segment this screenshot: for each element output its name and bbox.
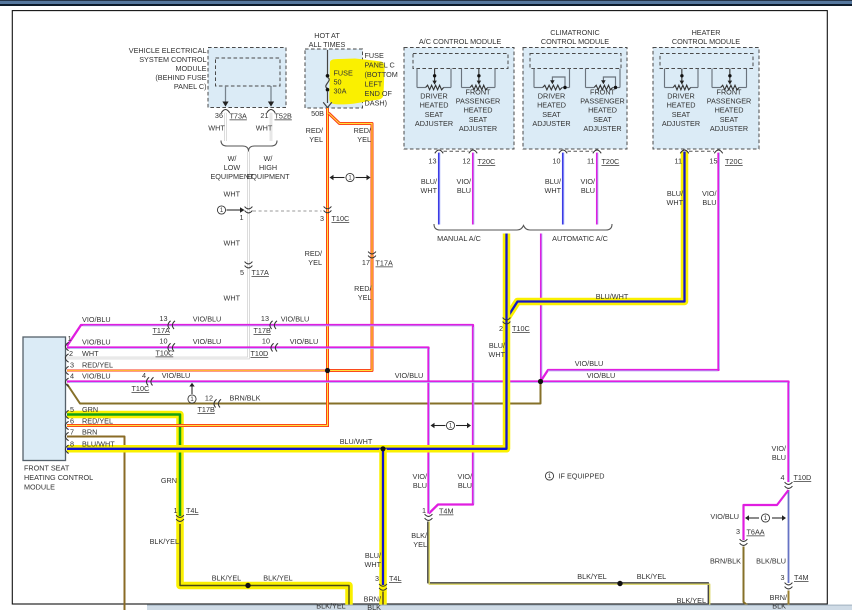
connector T20C pins 10,11 arcs (climatronic) (559, 150, 601, 153)
node VIO/BLU junction dot (538, 379, 543, 384)
if-equipped up arrow on row D (188, 383, 196, 404)
svg-text:DRIVER: DRIVER (538, 92, 565, 101)
wire BLK/YEL highlighted below T4L-1 (180, 516, 349, 610)
connector T4L pin 1 arcs (176, 515, 184, 517)
wire RED/YEL pin 3 row (67, 370, 328, 372)
svg-text:3: 3 (736, 527, 740, 536)
wire RED/YEL right branch via T17A-17 (329, 113, 373, 371)
resistor front passenger heated seat adjuster (heater) (712, 69, 747, 90)
wire BRN/BLK below T4M-3 (788, 591, 790, 609)
label BLU/WHT + VIO/BLU (climatronic) (544, 177, 595, 195)
brace manual/automatic A/C merge (434, 224, 612, 230)
svg-text:ADJUSTER: ADJUSTER (459, 124, 497, 133)
svg-text:FRONT: FRONT (590, 87, 616, 96)
svg-text:BLU/WHT: BLU/WHT (340, 437, 373, 446)
connector T17B pin 12 arcs (214, 399, 217, 407)
wire VIO/BLU below brace to junction (540, 234, 543, 382)
label connector T4L pin 3 (375, 574, 402, 583)
label front seat module pin wire names (82, 338, 115, 449)
svg-text:T73A: T73A (230, 112, 247, 121)
svg-text:BLU: BLU (413, 481, 427, 490)
label front seat module pin numbers (68, 334, 74, 449)
connector T73A pin 36 arc (221, 110, 229, 113)
label RED/YEL right upper (354, 126, 372, 144)
wire WHT from T73A (224, 113, 226, 141)
svg-text:T17A: T17A (252, 268, 269, 277)
svg-text:T17A: T17A (376, 259, 393, 268)
fuse F50 symbol 50 30A (323, 50, 332, 108)
wire BRN/BLK pin4 branch via T17B-12 to junction (67, 383, 541, 404)
wire BRN pin7 down (67, 437, 125, 610)
label connector T17A pin 5 (240, 268, 269, 277)
svg-text:HEATED: HEATED (715, 106, 744, 115)
wire VESCM internal pin 21 lead (268, 86, 274, 107)
svg-text:T10D: T10D (251, 349, 269, 358)
module U5 front seat heating control module box (23, 337, 66, 461)
svg-text:BLK: BLK (367, 603, 381, 610)
svg-text:SEAT: SEAT (542, 110, 561, 119)
svg-text:8: 8 (70, 440, 74, 449)
svg-text:BLU: BLU (772, 453, 786, 462)
svg-text:CONTROL MODULE: CONTROL MODULE (672, 37, 740, 46)
svg-text:BRN: BRN (82, 428, 97, 437)
label BLU/WHT above T4L-3 (364, 551, 381, 569)
svg-text:T10C: T10C (512, 324, 530, 333)
svg-text:WHT: WHT (364, 560, 381, 569)
svg-text:T20C: T20C (478, 157, 496, 166)
svg-text:PASSENGER: PASSENGER (707, 97, 752, 106)
connector T20C pins 13,12 arcs (A/C) (435, 150, 477, 153)
if-equipped arrow between fuse branches (330, 173, 371, 181)
svg-text:PANEL C: PANEL C (365, 61, 395, 70)
svg-text:WHT: WHT (666, 198, 683, 207)
svg-text:VIO/BLU: VIO/BLU (710, 512, 739, 521)
label BLK/YEL bottom row labels (212, 574, 346, 610)
svg-text:3: 3 (320, 214, 324, 223)
svg-text:1: 1 (422, 506, 426, 515)
svg-text:RED/YEL: RED/YEL (82, 361, 113, 370)
module U1 vehicle electrical system control module box (208, 48, 286, 108)
connector T10C pin 3 arcs (324, 206, 332, 208)
svg-text:VIO/: VIO/ (412, 472, 427, 481)
if-equipped arrow between T4M feeds (431, 421, 472, 429)
svg-text:BLK/YEL: BLK/YEL (316, 601, 345, 610)
svg-text:1: 1 (173, 506, 177, 515)
svg-text:YEL: YEL (413, 540, 427, 549)
svg-text:ADJUSTER: ADJUSTER (662, 119, 700, 128)
label BLU/WHT + VIO/BLU (A/C) (420, 177, 471, 195)
svg-text:HEATED: HEATED (537, 101, 566, 110)
svg-text:PANEL C): PANEL C) (174, 82, 207, 91)
svg-text:FRONT: FRONT (466, 87, 492, 96)
label WHT wire x3 (223, 190, 240, 303)
module U2 A/C control module box (404, 48, 514, 150)
svg-text:LOW: LOW (224, 163, 241, 172)
svg-text:ALL TIMES: ALL TIMES (309, 40, 346, 49)
svg-text:SEAT: SEAT (425, 110, 444, 119)
wire VESCM internal pin 36 lead (222, 86, 228, 107)
svg-text:BLU/WHT: BLU/WHT (596, 292, 629, 301)
connector T52B pin 21 arc (267, 110, 275, 113)
label VIO/BLU above T4M-1 right (457, 472, 472, 490)
svg-text:3: 3 (780, 573, 784, 582)
label RED/YEL left upper (306, 126, 324, 144)
svg-text:HEATED: HEATED (420, 101, 449, 110)
svg-text:VIO/BLU: VIO/BLU (395, 371, 424, 380)
svg-text:W/: W/ (264, 154, 274, 163)
svg-text:WHT: WHT (544, 186, 561, 195)
svg-text:BLK/YEL: BLK/YEL (677, 596, 706, 605)
svg-text:GRN: GRN (161, 476, 177, 485)
svg-text:AUTOMATIC A/C: AUTOMATIC A/C (552, 234, 608, 243)
connector T10D pin 4 arcs (785, 482, 793, 484)
node RED/YEL junction (325, 368, 330, 373)
wire BLU/WHT highlighted trunk below brace to pin 8 row (67, 234, 507, 449)
module U3 climatronic control module box (523, 48, 627, 150)
svg-text:VIO/BLU: VIO/BLU (82, 372, 111, 381)
front seat module pin arcs 1-8 (65, 342, 68, 453)
node BLU/WHT junction at pin8 row (380, 446, 385, 451)
svg-text:T52B: T52B (275, 112, 292, 121)
svg-text:VIO/: VIO/ (771, 444, 786, 453)
svg-text:ADJUSTER: ADJUSTER (415, 119, 453, 128)
svg-text:T4M: T4M (439, 507, 454, 516)
svg-text:HOT AT: HOT AT (314, 31, 340, 40)
svg-text:10: 10 (262, 337, 270, 346)
svg-text:WHT: WHT (420, 186, 437, 195)
svg-text:VIO/: VIO/ (580, 177, 595, 186)
connector T4M pin 3 arcs (785, 583, 793, 585)
svg-text:VIO/BLU: VIO/BLU (290, 337, 319, 346)
svg-text:RED/: RED/ (306, 126, 324, 135)
svg-text:W/: W/ (228, 154, 238, 163)
svg-text:DASH): DASH) (365, 99, 388, 108)
bottom UI strip (147, 605, 852, 610)
svg-text:HEATED: HEATED (667, 101, 696, 110)
svg-text:HEATED: HEATED (464, 106, 493, 115)
svg-text:BLK/BLU: BLK/BLU (756, 557, 786, 566)
svg-text:MODULE: MODULE (175, 64, 206, 73)
label connector T52B pin 21 (260, 111, 292, 121)
svg-text:YEL: YEL (308, 258, 322, 267)
svg-text:HEATED: HEATED (588, 106, 617, 115)
svg-text:11: 11 (674, 157, 682, 166)
svg-text:13: 13 (428, 157, 436, 166)
svg-text:7: 7 (70, 428, 74, 437)
svg-text:DRIVER: DRIVER (420, 92, 447, 101)
svg-text:FRONT SEAT: FRONT SEAT (24, 464, 70, 473)
svg-text:RED/: RED/ (305, 249, 323, 258)
connector T10D pin 10 arcs (271, 343, 274, 351)
svg-text:12: 12 (205, 394, 213, 403)
connector T17A pin 17 arcs (368, 252, 376, 254)
label connector T6AA pin 3 (736, 527, 765, 537)
label heater control module title (672, 28, 740, 46)
resistor driver heated seat adjuster (A/C) (417, 69, 451, 90)
svg-text:BLU: BLU (702, 198, 716, 207)
label connector T17B pin 12 (198, 394, 215, 415)
label w/ low equipment (210, 154, 254, 181)
label connector T73A pin 36 (215, 111, 247, 121)
wire BLU/WHT from climatronic pin 10 (562, 153, 565, 225)
resistor front passenger heated seat adjuster (climatronic) (586, 69, 621, 90)
svg-text:CONTROL MODULE: CONTROL MODULE (541, 37, 609, 46)
svg-text:T10C: T10C (156, 349, 174, 358)
svg-text:6: 6 (70, 417, 74, 426)
svg-text:GRN: GRN (82, 405, 98, 414)
svg-text:5: 5 (70, 405, 74, 414)
label T20C pins 11,15 (heater) (674, 157, 742, 167)
label connector T4M pin 3 (780, 573, 808, 582)
label driver/passenger adjuster texts (heater) (662, 92, 700, 129)
svg-text:WHT: WHT (208, 124, 225, 133)
svg-text:BLK/: BLK/ (411, 531, 428, 540)
brace merge low/high equipment (221, 141, 277, 152)
label T20C pins 10,11 (climatronic) (552, 157, 619, 167)
svg-text:END OF: END OF (365, 89, 393, 98)
label connector T10D pin 4 (780, 473, 811, 482)
svg-text:MANUAL A/C: MANUAL A/C (437, 234, 481, 243)
svg-text:VIO/BLU: VIO/BLU (162, 371, 191, 380)
label driver/passenger adjuster texts (climatronic) (532, 92, 570, 129)
svg-text:PASSENGER: PASSENGER (580, 97, 625, 106)
svg-text:T10D: T10D (794, 473, 812, 482)
svg-text:(BOTTOM: (BOTTOM (365, 70, 398, 79)
wire VIO/BLU from A/C pin 12 (472, 153, 475, 225)
svg-text:WHT: WHT (82, 349, 99, 358)
svg-text:EQUIPMENT: EQUIPMENT (246, 172, 290, 181)
label connector T17A pin 17 (362, 258, 393, 268)
svg-text:BLU/: BLU/ (489, 341, 506, 350)
svg-text:BLU/: BLU/ (545, 177, 562, 186)
svg-text:T20C: T20C (725, 157, 743, 166)
label connector T10C pin 4 (132, 371, 150, 393)
wire VIO/BLU row B pin1 to T4M via T10C/T10D (67, 348, 429, 514)
svg-text:SEAT: SEAT (593, 115, 612, 124)
svg-text:5: 5 (240, 268, 244, 277)
svg-text:12: 12 (462, 157, 470, 166)
connector T10C pin 2 arcs (503, 318, 511, 320)
svg-text:VIO/: VIO/ (456, 177, 471, 186)
svg-text:HEATER: HEATER (692, 28, 721, 37)
svg-text:RED/: RED/ (354, 126, 372, 135)
svg-text:SEAT: SEAT (720, 115, 739, 124)
svg-text:T10C: T10C (132, 384, 150, 393)
svg-text:10: 10 (159, 337, 167, 346)
wire VIO/BLU row D pin4 long run to T10D-4 (67, 382, 789, 483)
svg-text:2: 2 (69, 349, 73, 358)
svg-text:36: 36 (215, 111, 223, 120)
svg-text:21: 21 (260, 111, 268, 120)
svg-text:VIO/BLU: VIO/BLU (575, 359, 604, 368)
label front seat heating control module (24, 464, 93, 492)
svg-text:BLU/WHT: BLU/WHT (82, 440, 115, 449)
connector T17A pin 13 arcs (168, 321, 171, 329)
svg-text:HIGH: HIGH (259, 163, 277, 172)
label VIO/BLU above T10D-4 (771, 444, 786, 462)
svg-text:VIO/BLU: VIO/BLU (82, 338, 111, 347)
wire BRN/BLK below T6AA (744, 547, 754, 610)
label vehicle electrical system control module (129, 46, 207, 91)
label BRN/BLK below T4L-3 (364, 595, 382, 610)
wire WHT main vertical to pin 2 (67, 152, 249, 359)
legend if equipped marker (545, 472, 553, 480)
label hot at all times (309, 31, 346, 49)
svg-text:BRN/BLK: BRN/BLK (710, 557, 741, 566)
svg-text:WHT: WHT (223, 190, 240, 199)
connector T20C pin 11 arc over highlight (heater) (680, 150, 688, 153)
connector T10C pin 10 arcs (168, 343, 171, 351)
node BLK/YEL junction right (617, 581, 622, 586)
label connector T17B pin 13 (254, 314, 271, 335)
wire GRN highlighted pin5 to T4L-1 (67, 415, 180, 517)
svg-text:RED/: RED/ (354, 284, 372, 293)
svg-text:VIO/BLU: VIO/BLU (587, 371, 616, 380)
label connector T10D pin 10 (251, 337, 271, 359)
top window bar (0, 0, 852, 6)
svg-text:15: 15 (709, 157, 717, 166)
svg-text:ADJUSTER: ADJUSTER (710, 124, 748, 133)
if-equipped arrow at T6AA (745, 514, 786, 522)
svg-text:30A: 30A (334, 87, 347, 96)
wire BRN/BLK below T4L-3 (382, 592, 384, 610)
svg-text:SYSTEM CONTROL: SYSTEM CONTROL (139, 55, 206, 64)
svg-text:WHT: WHT (488, 350, 505, 359)
connector T4M pin 1 arcs (425, 514, 433, 516)
svg-text:IF EQUIPPED: IF EQUIPPED (559, 472, 605, 481)
label connector T4M pin 1 (422, 506, 454, 516)
svg-text:YEL: YEL (309, 135, 323, 144)
svg-text:BLK/YEL: BLK/YEL (212, 574, 241, 583)
label connector T4L pin 1 (173, 506, 198, 515)
svg-text:VIO/BLU: VIO/BLU (193, 337, 222, 346)
wire VIO/BLU from climatronic pin 11 (596, 153, 599, 225)
fuse panel C box (305, 49, 363, 108)
module U4 heater control module box (653, 48, 759, 150)
label driver/passenger adjuster texts (A/C) (415, 92, 453, 129)
svg-text:A/C CONTROL MODULE: A/C CONTROL MODULE (419, 37, 501, 46)
svg-text:T4L: T4L (186, 506, 199, 515)
svg-text:VIO/BLU: VIO/BLU (281, 315, 310, 324)
svg-text:ADJUSTER: ADJUSTER (583, 124, 621, 133)
label climatronic control module title (541, 28, 609, 46)
svg-text:1: 1 (68, 334, 72, 343)
svg-text:BLU/: BLU/ (421, 177, 438, 186)
wire RED/YEL fuse output trunk to pin 6 (67, 108, 328, 426)
svg-text:VEHICLE ELECTRICAL: VEHICLE ELECTRICAL (129, 46, 207, 55)
svg-text:10: 10 (552, 157, 560, 166)
svg-text:11: 11 (587, 157, 595, 166)
wire BLU/WHT highlighted vertical to T4L-3 (379, 449, 387, 610)
label fuse panel c (bottom left end of dash) (365, 51, 398, 108)
svg-text:T10C: T10C (332, 214, 350, 223)
wire dashed if-equipped link to T10C (253, 210, 322, 212)
svg-text:T17B: T17B (198, 405, 215, 414)
wire BLK/BLU T10D-4 to T4M-3 (788, 490, 790, 583)
svg-text:BLK/YEL: BLK/YEL (150, 537, 179, 546)
svg-text:4: 4 (780, 473, 784, 482)
svg-text:SEAT: SEAT (469, 115, 488, 124)
label VIO/BLU row D labels (162, 371, 616, 380)
highlight marker blob over fuse (329, 59, 384, 105)
svg-text:T6AA: T6AA (747, 528, 765, 537)
svg-text:BLU: BLU (457, 186, 471, 195)
svg-text:50: 50 (334, 78, 342, 87)
resistor driver heated seat adjuster (climatronic) (534, 69, 570, 90)
label RED/YEL left lower (305, 249, 323, 267)
svg-text:50B: 50B (311, 109, 324, 118)
connector T10C pin 4 arcs (146, 377, 149, 385)
svg-text:2: 2 (499, 324, 503, 333)
label connector T10C pin 10 (156, 337, 174, 358)
label T20C pins 13,12 (A/C) (428, 157, 495, 167)
svg-text:T20C: T20C (602, 157, 620, 166)
resistor driver heated seat adjuster (heater) (665, 69, 699, 90)
svg-text:3: 3 (70, 361, 74, 370)
svg-text:YEL: YEL (358, 293, 372, 302)
label connector T10C pin 3 (320, 214, 349, 223)
svg-text:4: 4 (142, 371, 146, 380)
label FUSE 50 30A (334, 69, 354, 96)
wire BLU/WHT from A/C pin 13 (438, 153, 441, 225)
svg-text:FUSE: FUSE (334, 69, 354, 78)
label connector T17A pin 13 (153, 314, 170, 335)
svg-text:BLK: BLK (772, 602, 786, 610)
svg-text:VIO/BLU: VIO/BLU (193, 315, 222, 324)
connector T17B pin 13 arcs (270, 321, 273, 329)
svg-text:VIO/: VIO/ (457, 472, 472, 481)
svg-text:LEFT: LEFT (365, 80, 383, 89)
wire VIO/BLU below T10D-4 to T6AA (744, 490, 789, 540)
svg-text:BLU/: BLU/ (365, 551, 382, 560)
svg-text:BLU: BLU (458, 481, 472, 490)
label BLU/WHT + VIO/BLU (heater) (666, 189, 717, 207)
svg-text:BLK/YEL: BLK/YEL (577, 572, 606, 581)
resistor front passenger heated seat adjuster (A/C) (462, 69, 496, 90)
label VIO/BLU above T4M-1 left (412, 472, 427, 490)
svg-text:VIO/BLU: VIO/BLU (82, 315, 111, 324)
svg-text:BLU/: BLU/ (667, 189, 684, 198)
svg-text:YEL: YEL (357, 135, 371, 144)
connector T6AA pin 3 arcs (740, 539, 748, 541)
wire VIO/BLU row A pin1 to T4M via T17A/T17B (67, 325, 474, 514)
wire BLK/YEL from T4M-1 bottom right (428, 522, 710, 610)
svg-text:WHT: WHT (223, 239, 240, 248)
svg-text:T4L: T4L (389, 574, 402, 583)
svg-text:13: 13 (261, 314, 269, 323)
label w/ high equipment (246, 154, 290, 181)
svg-text:BRN/BLK: BRN/BLK (229, 394, 260, 403)
svg-text:WHT: WHT (223, 294, 240, 303)
svg-text:ADJUSTER: ADJUSTER (532, 119, 570, 128)
label connector T10C pin 2 (499, 324, 530, 333)
svg-text:T17B: T17B (254, 326, 271, 335)
svg-text:1: 1 (239, 213, 243, 222)
wire BLU/WHT highlighted from heater pin 11 to T10C-2 (507, 152, 684, 318)
node WHT inline junction pin 1 with if-equipped arrow (217, 206, 252, 214)
svg-text:FRONT: FRONT (717, 87, 743, 96)
label RED/YEL right lower (354, 284, 372, 302)
svg-text:PASSENGER: PASSENGER (456, 97, 501, 106)
svg-text:13: 13 (159, 314, 167, 323)
svg-text:(BEHIND FUSE: (BEHIND FUSE (155, 73, 206, 82)
svg-text:T17A: T17A (153, 326, 170, 335)
connector T17A pin 5 on WHT arcs (245, 262, 253, 264)
svg-text:FUSE: FUSE (365, 51, 385, 60)
label BLK/YEL below T4M-1 (411, 531, 428, 549)
connector T4L pin 3 arcs (379, 584, 387, 586)
svg-text:VIO/: VIO/ (702, 189, 717, 198)
